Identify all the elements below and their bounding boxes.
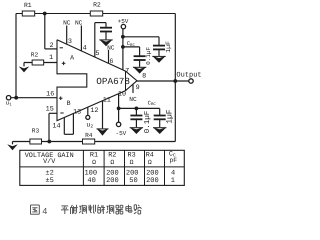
svg-text:R2: R2 (93, 2, 101, 9)
svg-text:+5V: +5V (118, 18, 129, 25)
svg-text:±5: ±5 (45, 177, 53, 185)
svg-text:Ω: Ω (92, 159, 96, 166)
svg-text:Output: Output (176, 71, 201, 79)
svg-text:1: 1 (49, 54, 53, 62)
svg-text:6: 6 (109, 58, 113, 66)
svg-text:9: 9 (136, 84, 140, 92)
svg-text:1µF: 1µF (165, 41, 172, 53)
svg-text:0.1µF: 0.1µF (143, 111, 152, 134)
svg-text:7: 7 (125, 68, 129, 76)
svg-text:Ω: Ω (110, 159, 114, 166)
svg-text:1µF: 1µF (166, 109, 175, 124)
svg-text:R3: R3 (32, 128, 40, 135)
svg-text:0.1µF: 0.1µF (145, 46, 152, 64)
svg-text:pF: pF (169, 157, 177, 164)
svg-text:200: 200 (146, 177, 159, 185)
svg-text:B: B (67, 100, 71, 107)
svg-text:OPA678: OPA678 (96, 76, 130, 87)
svg-text:12: 12 (90, 107, 98, 115)
svg-text:11: 11 (103, 96, 111, 104)
svg-text:1: 1 (171, 177, 175, 185)
svg-text:R2: R2 (31, 52, 39, 59)
svg-text:Ω: Ω (148, 159, 152, 166)
svg-text:200: 200 (106, 177, 119, 185)
svg-text:V/V: V/V (43, 158, 56, 166)
svg-text:CBC: CBC (127, 40, 136, 48)
svg-text:R4: R4 (85, 132, 93, 139)
svg-text:4: 4 (83, 45, 87, 53)
svg-text:14: 14 (52, 123, 60, 131)
svg-text:NC: NC (107, 44, 115, 51)
svg-text:R1: R1 (24, 2, 32, 9)
svg-text:2: 2 (50, 42, 54, 50)
svg-text:u1: u1 (6, 100, 13, 108)
svg-text:5: 5 (95, 50, 99, 58)
svg-text:u2: u2 (86, 122, 93, 130)
svg-text:Ω: Ω (130, 159, 134, 166)
svg-text:13: 13 (73, 109, 81, 117)
svg-text:15: 15 (46, 105, 54, 113)
svg-text:A: A (70, 55, 74, 62)
svg-text:10: 10 (118, 91, 126, 99)
svg-text:CBC: CBC (148, 99, 157, 107)
svg-text:40: 40 (87, 177, 95, 185)
svg-text:8: 8 (142, 73, 146, 81)
svg-text:16: 16 (46, 91, 54, 99)
svg-text:50: 50 (129, 177, 137, 185)
svg-text:3: 3 (68, 38, 72, 46)
svg-text:NC: NC (129, 96, 137, 103)
svg-text:-5V: -5V (115, 130, 126, 137)
svg-text:4: 4 (42, 206, 47, 216)
svg-text:NC: NC (63, 19, 71, 26)
svg-text:NC: NC (75, 19, 83, 26)
